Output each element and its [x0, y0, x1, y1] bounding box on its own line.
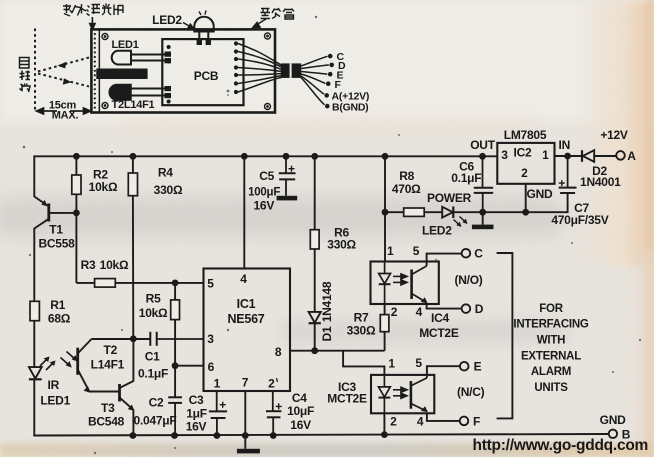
wire IN: [555, 155, 582, 157]
optocoupler IC4 MCT2E box: [371, 262, 439, 305]
IR filter strip hatch: [94, 29, 100, 112]
PCB pads left column: [167, 45, 171, 104]
terminal E: [460, 362, 469, 371]
node pin7 rail junction: [242, 432, 249, 439]
wire bottom ground rail: [33, 434, 608, 436]
capacitor C6: [474, 156, 493, 212]
beam upper dashed with arrowhead: [38, 58, 89, 72]
screw bottom-left: [102, 103, 108, 109]
wire top +5V rail: [34, 155, 497, 157]
capacitor C4 electrolytic: [266, 391, 282, 436]
ground C5: [277, 196, 298, 201]
terminal D (top diagram): [329, 63, 334, 68]
node C4 rail junction: [270, 432, 277, 439]
wire IC3 pin4 to F: [427, 413, 460, 421]
diode D2 1N4001: [582, 150, 616, 162]
screw top-right: [265, 33, 271, 39]
screw top-left: [102, 34, 108, 40]
wire base node down to R3: [75, 213, 77, 283]
node T1 base junction: [73, 210, 80, 217]
resistor R2: [72, 156, 81, 213]
resistor R5: [171, 283, 180, 397]
wire jog pin8 to IC3 pin1: [343, 351, 384, 375]
terminal A (+12V) (top diagram): [324, 93, 329, 98]
terminal A +12V input: [616, 151, 625, 160]
label 塑料盒 (plastic box): [261, 8, 295, 19]
wire left rail upper: [33, 155, 35, 197]
enclosure box: [91, 29, 275, 112]
node pin3 T3 junction: [130, 335, 137, 342]
resistor R1: [30, 301, 39, 320]
terminal E (top diagram): [328, 72, 333, 77]
phototransistor T2 L14F1: [61, 339, 92, 393]
transistor T3 BC548: [120, 381, 135, 411]
resistor R7: [380, 304, 389, 351]
voltage regulator IC2 LM7805 box: [497, 143, 554, 184]
LED1 leg pads: [165, 52, 172, 64]
node top rail C5 junction: [283, 153, 290, 160]
node C2 rail junction: [171, 432, 178, 439]
node R8 tap junction: [382, 209, 389, 216]
node C6 bottom junction: [479, 209, 486, 216]
scan background washes: [0, 0, 654, 122]
terminal B GND: [609, 430, 617, 438]
LED2 leg pads: [197, 40, 211, 46]
resistor R8: [385, 208, 442, 216]
wire left rail mid: [33, 228, 35, 301]
node top rail R4 junction: [130, 153, 137, 160]
IC3 internal LED: [379, 375, 391, 413]
wire power bottom to C7: [483, 193, 568, 212]
LED LED2 power indicator: [442, 207, 483, 228]
node pin5 R5 junction: [172, 280, 179, 287]
wire pin3 horizontal: [92, 338, 151, 340]
arrow 塑料盒 to box corner: [253, 19, 266, 28]
optocoupler IC3 MCT2E box: [371, 375, 434, 413]
wire T3 emitter to bottom rail: [132, 410, 134, 436]
bracket for interfacing: [497, 253, 513, 418]
node C3 rail junction: [214, 432, 221, 439]
resistor R6: [310, 156, 319, 312]
LED2 dome (top diagram): [194, 11, 213, 44]
target dashed vertical line: [34, 29, 36, 112]
node IC3 pin2 rail junction: [381, 431, 388, 438]
LED1 dome (top diagram): [112, 51, 166, 65]
node pin6 junction: [172, 362, 179, 369]
IC4 internal phototransistor: [412, 266, 428, 303]
ground C6: [472, 212, 494, 229]
terminal C: [462, 249, 471, 258]
wire R1 to LED1: [33, 321, 35, 367]
node IC2 GND junction: [522, 209, 529, 216]
capacitor C1: [150, 332, 203, 346]
capacitor C5 electrolytic: [279, 156, 296, 196]
label 红外滤光片 (IR filter): [63, 4, 124, 17]
capacitor C7 electrolytic: [559, 156, 577, 193]
wire pin8 horizontal: [290, 350, 385, 352]
IC4 internal light arrows: [393, 274, 407, 285]
node D2 C7 junction: [564, 153, 571, 160]
wire IC2 GND pin: [525, 184, 527, 212]
wire harness into bundle: [238, 44, 282, 93]
distance double arrow: [37, 108, 91, 114]
node top rail OUT junction: [479, 153, 486, 160]
op-amp / tone decoder IC1 NE567 box: [204, 269, 291, 392]
beam lower dashed with arrowhead: [38, 74, 89, 87]
diode D1 1N4148: [309, 312, 321, 351]
wire T3 collector up to pin3 node: [132, 339, 134, 382]
wire IC4 pin1 drop: [384, 156, 386, 261]
divider dark bar: [96, 69, 147, 80]
node top rail pin4 junction: [241, 153, 248, 160]
PCB pads right column: [234, 41, 238, 94]
screw bottom-right: [265, 104, 271, 110]
wire IC4 pin5 to C: [427, 254, 462, 266]
terminal C (top diagram): [328, 54, 333, 59]
node T3 emitter rail junction: [130, 432, 137, 439]
ground IC1 pin7: [237, 449, 260, 454]
IC3 internal phototransistor: [411, 378, 428, 412]
node top rail R6 junction: [311, 153, 318, 160]
capacitor C2: [168, 397, 182, 435]
arrow LED2 label to dome: [183, 23, 194, 30]
arrow from 红外滤光片 to filter strip: [90, 17, 95, 30]
resistor R4: [128, 156, 137, 338]
wire T2 emitter to T3 base: [89, 391, 118, 393]
wire pin7 to ground: [244, 391, 246, 449]
terminal F: [460, 417, 469, 426]
wire pin4 to top rail: [243, 156, 245, 268]
transistor T1 BC558: [34, 197, 76, 229]
wire IC3 pin2 to rail: [383, 413, 385, 434]
node top rail IC4 junction: [382, 153, 389, 160]
pin 2 prime tick IC1: [277, 378, 278, 382]
wire IC3 pin5 to E: [427, 366, 460, 378]
wire pin6: [175, 365, 203, 367]
terminal F (top diagram): [326, 81, 331, 86]
IC4 internal LED: [379, 262, 391, 305]
resistor R3: [76, 279, 203, 288]
LED D LED1 (IR emitter): [29, 357, 56, 380]
node top rail R2 junction: [73, 153, 80, 160]
terminal B (GND) (top diagram): [325, 104, 330, 109]
wire LED1 to bottom rail: [33, 379, 35, 436]
PCB outline: [162, 39, 243, 105]
capacitor C3 electrolytic: [209, 391, 227, 436]
node D1 pin8 junction: [311, 347, 318, 354]
wire fan to terminals: [301, 56, 329, 105]
terminal D: [462, 304, 471, 313]
IC3 internal light arrows: [393, 387, 407, 398]
cable bundle block: [281, 63, 301, 78]
phototransistor dome T2L14F1 (top diagram): [109, 85, 171, 101]
label 目标物 (target object, vertical): [20, 58, 31, 93]
wire IC4 pin4 to D: [427, 304, 462, 309]
